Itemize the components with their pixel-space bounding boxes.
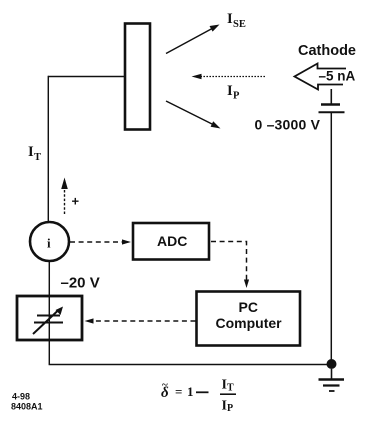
dashed link: PC to bias supply	[85, 318, 196, 323]
cathode block arrow	[295, 64, 347, 90]
ADC box	[133, 223, 209, 260]
current direction arrow	[61, 178, 68, 215]
svg-text:P: P	[227, 403, 233, 414]
label I_T	[28, 144, 41, 163]
secondary emission arrow	[166, 25, 220, 54]
sample electrode plate	[125, 24, 150, 130]
svg-text:Cathode: Cathode	[298, 43, 356, 59]
figure number 4-98 8408A1	[11, 392, 43, 412]
PC computer box	[197, 292, 301, 346]
wire: bottom rail	[49, 364, 332, 366]
dashed link: ammeter to ADC	[70, 239, 131, 244]
svg-text:8408A1: 8408A1	[11, 402, 43, 412]
wire: right rail	[330, 113, 332, 365]
dashed link: ADC to PC	[211, 242, 249, 289]
svg-text:T: T	[227, 383, 234, 394]
bias supply box	[17, 296, 82, 340]
svg-text:–5 nA: –5 nA	[319, 68, 356, 83]
backscatter arrow	[166, 101, 221, 129]
svg-text:i: i	[47, 236, 51, 251]
svg-text:4-98: 4-98	[12, 392, 30, 402]
svg-text:Computer: Computer	[216, 315, 283, 331]
high voltage supply V1	[319, 89, 345, 112]
label I_SE	[227, 11, 246, 30]
svg-text:~: ~	[162, 379, 168, 391]
primary beam arrow I_P	[192, 74, 266, 79]
svg-text:T: T	[34, 152, 41, 163]
svg-text:–20 V: –20 V	[61, 275, 100, 292]
node junction	[327, 359, 337, 369]
svg-text:=: =	[175, 384, 182, 399]
ammeter U1	[30, 222, 69, 261]
wire: left rail upper	[47, 76, 49, 223]
svg-text:+: +	[72, 194, 80, 209]
formula delta = 1 - IT/IP	[161, 378, 236, 415]
svg-text:SE: SE	[233, 19, 246, 30]
svg-text:PC: PC	[239, 299, 258, 315]
ground	[319, 369, 345, 391]
wire: plate left to left rail	[48, 76, 124, 78]
svg-text:P: P	[233, 91, 240, 102]
wire: left rail lower	[48, 261, 50, 365]
svg-text:1: 1	[187, 384, 194, 399]
svg-text:ADC: ADC	[157, 233, 187, 249]
label I_P	[227, 83, 240, 102]
variable capacitor symbol	[33, 311, 63, 335]
svg-text:0 –3000 V: 0 –3000 V	[255, 117, 321, 133]
